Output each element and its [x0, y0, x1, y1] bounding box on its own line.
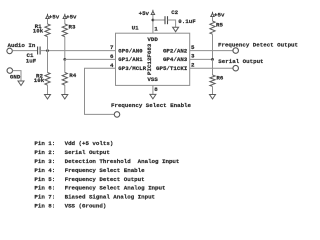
wire pin8 VSS	[152, 85, 154, 94]
svg-text:Pin 2:: Pin 2:	[34, 149, 55, 156]
wire node to R2	[47, 51, 49, 73]
svg-text:Vdd (+5 volts): Vdd (+5 volts)	[65, 140, 114, 147]
svg-text:U1: U1	[132, 25, 139, 32]
ground under R6	[210, 95, 216, 100]
wire pin2 row	[190, 67, 233, 69]
terminal Serial Output	[233, 65, 239, 71]
wire node to R6	[212, 59, 214, 75]
svg-text:C2: C2	[171, 9, 178, 16]
svg-text:10k: 10k	[33, 28, 44, 35]
terminal Frequency Select Enable	[114, 112, 120, 118]
svg-text:R5: R5	[216, 22, 223, 29]
wire +5v to R1	[47, 19, 49, 25]
capacitor C2	[165, 16, 168, 24]
svg-text:Biased Signal Analog Input: Biased Signal Analog Input	[65, 194, 155, 201]
svg-text:Serial Output: Serial Output	[218, 58, 263, 65]
svg-text:0.1uF: 0.1uF	[178, 18, 196, 25]
svg-text:Pin 5:: Pin 5:	[34, 176, 55, 183]
wire pin5 row	[190, 50, 233, 52]
resistor R5	[210, 21, 215, 34]
resistor R4	[62, 73, 67, 86]
wire +5v to R5	[212, 17, 214, 22]
svg-text:3: 3	[191, 53, 195, 60]
svg-text:Pin 4:: Pin 4:	[34, 167, 55, 174]
node R3 R4 pin6 junction	[63, 58, 66, 61]
power +5v arrow pin1	[151, 10, 154, 15]
svg-text:Detection Threshold Analog In: Detection Threshold Analog Input	[65, 158, 180, 165]
svg-text:Pin 7:: Pin 7:	[34, 194, 55, 201]
wire C1 to pin7	[40, 50, 115, 52]
svg-text:R6: R6	[216, 75, 223, 82]
IC U1 body	[116, 33, 190, 85]
svg-text:1uF: 1uF	[26, 57, 37, 64]
power +5v arrow R5	[211, 12, 214, 17]
svg-text:VSS: VSS	[147, 76, 158, 83]
resistor R3	[62, 24, 67, 37]
wire +5v to R3	[64, 19, 66, 25]
wire R6 to ground	[212, 86, 214, 94]
terminal Audio In	[7, 48, 13, 54]
wire node to R4	[64, 59, 66, 72]
node R5 R6 pin3 junction	[211, 58, 214, 61]
resistor R6	[210, 75, 215, 86]
svg-text:GP2/AN2: GP2/AN2	[163, 47, 188, 54]
svg-text:GP5/T1CKI: GP5/T1CKI	[156, 65, 188, 72]
resistor R2	[45, 73, 50, 86]
wire R2 to ground	[47, 85, 49, 94]
svg-text:GP0/AN0: GP0/AN0	[118, 47, 143, 54]
svg-text:Pin 1:: Pin 1:	[34, 140, 55, 147]
wire pin4 to enable terminal	[85, 68, 116, 114]
wire R1 to node	[47, 37, 49, 51]
wire R3 to node (crosses pin7 wire)	[64, 37, 66, 60]
wire audio to C1	[12, 50, 37, 52]
ground under R4	[62, 95, 68, 100]
svg-text:VSS (Ground): VSS (Ground)	[65, 203, 107, 210]
wire to C2	[153, 19, 165, 21]
svg-text:Frequency Select Enable: Frequency Select Enable	[65, 167, 146, 174]
svg-text:5: 5	[191, 44, 195, 51]
svg-text:1: 1	[154, 26, 158, 33]
svg-text:Frequency Select Analog Input: Frequency Select Analog Input	[65, 185, 166, 192]
capacitor C1	[38, 47, 41, 55]
power +5v arrow R3	[63, 14, 66, 19]
node pin1 C2 junction	[152, 19, 155, 22]
svg-text:GP1/AN1: GP1/AN1	[118, 56, 143, 63]
svg-text:R3: R3	[69, 24, 76, 31]
resistor R1	[45, 24, 50, 37]
svg-text:GP4/AN3: GP4/AN3	[163, 56, 188, 63]
svg-text:+5v: +5v	[49, 13, 60, 20]
svg-text:GND: GND	[10, 73, 21, 80]
svg-text:+5v: +5v	[66, 13, 77, 20]
svg-text:7: 7	[110, 44, 114, 51]
wire R4 to ground	[64, 85, 66, 94]
svg-text:8: 8	[154, 86, 158, 93]
ground under pin8	[150, 94, 156, 99]
svg-text:Pin 6:: Pin 6:	[34, 185, 55, 192]
svg-text:10k: 10k	[34, 77, 45, 84]
wire C2 to ground	[168, 20, 176, 27]
svg-text:VDD: VDD	[147, 36, 158, 43]
wire pin6 row	[65, 58, 116, 60]
svg-text:+5v: +5v	[139, 10, 150, 17]
svg-text:2: 2	[191, 62, 195, 69]
power +5v arrow R1	[46, 14, 49, 19]
svg-text:Frequency Detect Output: Frequency Detect Output	[218, 41, 298, 48]
svg-text:Pin 3:: Pin 3:	[34, 158, 55, 165]
wire pin3 row	[190, 58, 213, 60]
ground under R2	[45, 95, 51, 100]
svg-text:Audio In: Audio In	[8, 42, 36, 49]
wire R5 to node (crosses pin5 wire)	[212, 34, 214, 59]
node R1 R2 C1 junction	[46, 49, 49, 52]
wire pin1	[152, 15, 154, 34]
svg-text:Frequency Detect Output: Frequency Detect Output	[65, 176, 145, 183]
svg-text:+5v: +5v	[214, 12, 225, 19]
svg-text:GP3/MCLR: GP3/MCLR	[118, 65, 146, 72]
terminal GND	[7, 68, 13, 74]
ground under GND terminal	[18, 81, 24, 86]
svg-text:PIC12F683: PIC12F683	[146, 43, 153, 75]
svg-text:Pin 8:: Pin 8:	[34, 203, 55, 210]
ground under C2	[173, 27, 179, 32]
svg-text:Serial Output: Serial Output	[65, 149, 110, 156]
svg-text:R4: R4	[69, 72, 76, 79]
wire GND terminal	[12, 71, 21, 81]
svg-text:Frequency Select Enable: Frequency Select Enable	[111, 102, 192, 109]
svg-text:6: 6	[110, 53, 114, 60]
terminal Frequency Detect Output	[233, 48, 239, 54]
